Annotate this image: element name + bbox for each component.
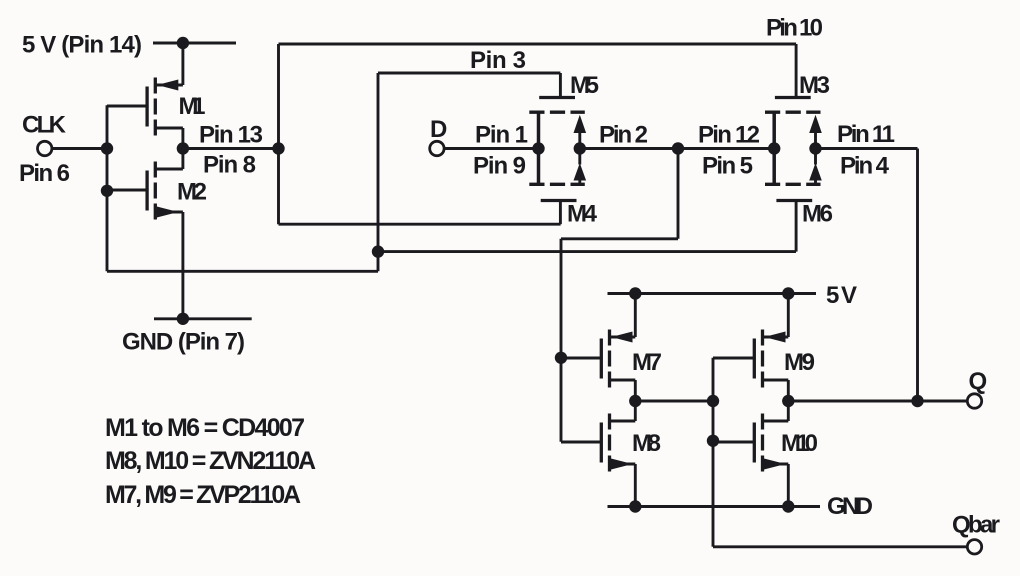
svg-text:M1: M1 [179, 93, 206, 120]
wire Qbar to terminal [713, 545, 967, 548]
svg-text:M7: M7 [632, 349, 662, 376]
wire Pin 3 to M5 gate [378, 72, 560, 75]
svg-text:M5: M5 [570, 72, 599, 99]
wire M7/M8 drains to Qbar column [635, 400, 713, 403]
transmission-gate channel box M3/M6 [765, 112, 822, 184]
wire D input to TG1 [444, 147, 538, 150]
svg-text:M6: M6 [802, 201, 833, 228]
wire CLKbar to M4 gate [279, 223, 561, 226]
svg-text:M9: M9 [784, 349, 815, 376]
terminal CLK input circle (Pin 6) [38, 141, 52, 155]
svg-text:Qbar: Qbar [952, 512, 1000, 539]
svg-text:Pin 4: Pin 4 [840, 153, 890, 180]
junction Pin 2 / latch input drop [672, 142, 684, 154]
junction CLK / Pin 3 / M6 gate wire [372, 245, 384, 257]
junction M1/M2 drains (Pin 13 / Pin 8 node) [177, 142, 189, 154]
wire latch input down to M7/M8 gates [560, 239, 563, 442]
wire TG1 output (Pin 2) [580, 147, 678, 150]
wire TG2 output (Pin 11 / Pin 4) [816, 147, 918, 150]
junction output node of M5/M4 [574, 142, 586, 154]
svg-text:M3: M3 [799, 72, 830, 99]
svg-text:Pin 8: Pin 8 [203, 152, 256, 179]
junction CLKbar column [272, 142, 284, 154]
svg-text:M1 to M6 = CD4007: M1 to M6 = CD4007 [105, 414, 305, 442]
svg-text:Pin 5: Pin 5 [702, 153, 753, 180]
wire CLK gate column vertical [106, 105, 109, 271]
junction 5V / M7 source [629, 287, 641, 299]
svg-text:GND (Pin 7): GND (Pin 7) [122, 329, 245, 356]
svg-text:Pin 10: Pin 10 [766, 15, 823, 42]
junction 5V / M9 source [782, 287, 794, 299]
svg-text:D: D [430, 116, 447, 143]
wire Qbar column vertical [712, 358, 715, 547]
svg-text:Q: Q [969, 368, 988, 395]
wire 5V supply stub [153, 42, 236, 45]
terminal Q output circle [967, 394, 981, 408]
terminal Qbar output circle [967, 540, 981, 554]
svg-text:Pin 11: Pin 11 [837, 121, 895, 148]
junction Qbar column / M10 gate [707, 435, 719, 447]
svg-text:M8: M8 [632, 430, 661, 457]
junction Qbar column / inverter1 output [707, 395, 719, 407]
transistor M3 top gate [775, 44, 811, 98]
ground GND rail of latch [608, 505, 821, 508]
wire latch input drop vertical [677, 149, 680, 239]
power 5V rail of latch [608, 292, 817, 295]
transistor M6 bottom gate [776, 201, 812, 252]
transistor M10 (NMOS) [713, 401, 788, 507]
junction input node of M3/M6 [768, 142, 780, 154]
junction 5V / M1 source [177, 37, 189, 49]
wire latch input horizontal [561, 237, 678, 240]
wire CLKbar column vertical [277, 44, 280, 224]
svg-text:M4: M4 [567, 201, 598, 228]
svg-text:Pin 2: Pin 2 [599, 122, 648, 149]
junction input node of M5/M4 [532, 142, 544, 154]
svg-text:Pin 1: Pin 1 [475, 122, 528, 149]
svg-text:5 V: 5 V [826, 282, 857, 309]
terminal D input circle [430, 141, 444, 155]
junction M2 source / GND [177, 313, 189, 325]
junction Q node / feedback [911, 395, 923, 407]
wire CLK to M6 gate (Pin 5 row) [378, 250, 796, 253]
svg-text:M10: M10 [781, 430, 818, 457]
wire CLK riser to Pin 3 node [377, 73, 380, 271]
wire CLK input to gate column [52, 147, 107, 150]
wire inverter output to CLKbar column [183, 147, 279, 150]
junction CLK / M2 gate [101, 185, 113, 197]
transistor M9 (PMOS) [713, 294, 788, 402]
ground GND (Pin 7) stub [154, 317, 252, 320]
svg-text:Pin 3: Pin 3 [470, 47, 526, 74]
transistor M2 (NMOS) [107, 149, 183, 319]
junction CLK / M1 gate [101, 142, 113, 154]
wire CLKbar top run to Pin 10 / M3 gate [279, 43, 797, 46]
svg-text:M8, M10 = ZVN2110A: M8, M10 = ZVN2110A [105, 447, 316, 475]
svg-text:GND: GND [827, 493, 873, 520]
wire feedback vertical to Q node [916, 149, 919, 402]
wire M9/M10 drains to Q terminal [788, 400, 967, 403]
junction M7/M8 gate tie [555, 352, 567, 364]
transmission-gate channel box M5/M4 [529, 112, 586, 184]
svg-text:Pin 13: Pin 13 [199, 122, 263, 149]
svg-text:Pin 9: Pin 9 [473, 153, 526, 180]
junction output node of M3/M6 [809, 142, 821, 154]
junction GND / M8 source [629, 500, 641, 512]
transistor M4 bottom gate [541, 201, 577, 225]
wire CLK run bottom horizontal [107, 270, 378, 273]
transistor M5 top gate [539, 73, 575, 98]
svg-text:CLK: CLK [22, 112, 67, 139]
svg-text:M2: M2 [177, 179, 207, 206]
svg-text:Pin 6: Pin 6 [19, 160, 70, 187]
transistor M8 (NMOS) [561, 401, 635, 507]
svg-text:Pin 12: Pin 12 [698, 122, 760, 149]
junction GND / M10 source [782, 500, 794, 512]
svg-text:M7, M9 = ZVP2110A: M7, M9 = ZVP2110A [105, 481, 301, 509]
junction M9/M10 drain node [782, 395, 794, 407]
svg-text:5 V (Pin 14): 5 V (Pin 14) [22, 32, 142, 59]
wire Pin 2 to TG2 input (Pin 12 / Pin 5) [678, 147, 774, 150]
junction M7/M8 drain node [629, 395, 641, 407]
transistor M1 (PMOS) [107, 43, 183, 149]
transistor M7 (PMOS) [561, 294, 635, 402]
